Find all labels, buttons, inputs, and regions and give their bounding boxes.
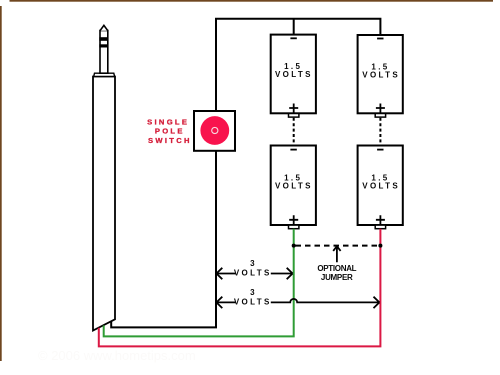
svg-text:OPTIONAL: OPTIONAL [317,264,356,273]
top brown border bar [10,0,494,2]
dimension arrow 3 VOLTS (lower, with hop over green wire) [217,299,379,303]
jumper pointer arrow [333,246,340,262]
junction dot at green wire [292,244,296,248]
dashed series link B1-B3 [293,118,295,145]
plug P1 tip [100,25,108,30]
battery B2 plus [376,104,385,113]
red wire (6V) [99,229,381,347]
battery B3 terminal tab [289,225,299,229]
wire stub to battery B1 top [293,19,295,35]
plug P1 shaft [100,31,108,74]
battery B4 minus [377,149,383,151]
switch S1 box [194,111,235,151]
svg-text:SWITCH: SWITCH [148,136,192,145]
optional jumper dashed wire [296,245,379,247]
battery B4 plus [376,215,385,224]
switch S1 button ring [212,127,218,133]
svg-text:© 2006 www.hometips.com: © 2006 www.hometips.com [38,348,196,363]
battery B2 box [358,35,403,113]
junction dot at red wire [378,244,382,248]
battery B1 minus [290,37,296,39]
plug P1 collar [94,73,115,76]
svg-text:POLE: POLE [155,127,185,136]
switch S1 red button [200,116,229,145]
battery B1 terminal tab [289,114,299,118]
dashed series link B2-B4 [379,118,381,145]
battery B1 plus [289,104,298,113]
svg-text:VOLTS: VOLTS [362,70,400,79]
dimension arrow 3 VOLTS (upper) [217,273,292,275]
svg-text:3: 3 [250,288,257,297]
battery B3 plus [289,215,298,224]
battery B2 minus [377,38,383,40]
battery B3 minus [290,149,296,151]
battery B4 box [358,146,403,226]
plug insulator stripe 1 [99,37,108,41]
svg-text:3: 3 [250,259,257,268]
plug P1 body [93,77,115,331]
wire from switch bottom to plug (sleeve) [111,151,216,327]
svg-text:SINGLE: SINGLE [147,118,189,127]
plug insulator stripe 2 [99,44,108,47]
svg-text:VOLTS: VOLTS [362,181,400,190]
top bus wire (battery bank to switch) [216,19,380,111]
left brown border bar [0,6,2,361]
svg-text:VOLTS: VOLTS [275,181,313,190]
battery B2 terminal tab [375,114,385,118]
svg-text:VOLTS: VOLTS [275,70,313,79]
svg-text:VOLTS: VOLTS [234,298,272,307]
battery B1 box [271,35,316,114]
battery B4 terminal tab [375,225,385,229]
svg-text:VOLTS: VOLTS [234,269,272,278]
battery B3 box [271,146,316,226]
green wire (3V tap) [104,229,294,337]
svg-text:JUMPER: JUMPER [321,273,353,282]
